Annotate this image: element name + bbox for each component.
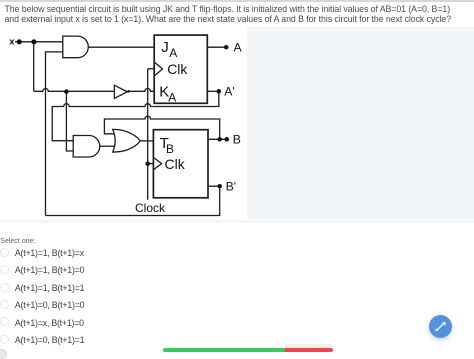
wire A' feedback down-left bbox=[52, 91, 219, 140]
question text bbox=[5, 4, 473, 25]
circuit schematic bbox=[0, 0, 247, 220]
wire K line with hops bbox=[34, 89, 115, 92]
and gate AND1 bbox=[63, 36, 89, 58]
wire clock vertical bbox=[147, 69, 149, 200]
light blue panel right of circuit image bbox=[247, 27, 474, 219]
wire x input horizontal bbox=[15, 41, 63, 43]
flip-flop JK box bbox=[154, 35, 207, 103]
progress bar red segment bbox=[285, 348, 333, 352]
node buffer output dot bbox=[127, 90, 130, 93]
wire B feedback up-left bbox=[104, 116, 219, 139]
wire OR output to T bbox=[140, 140, 153, 142]
node junction x-branch bbox=[64, 89, 69, 94]
wire clock stub to T clk bbox=[148, 163, 154, 165]
progress bar light halo bbox=[285, 344, 332, 348]
wire AND2 output to OR bbox=[100, 145, 115, 147]
wire AND1 lower input from B' bbox=[46, 52, 63, 216]
blue FAB button bbox=[429, 315, 452, 338]
top grey band bbox=[0, 0, 474, 2]
buffer U1 bbox=[114, 85, 127, 98]
node B junction bbox=[217, 137, 222, 142]
wire branch to AND2 lower input bbox=[66, 91, 73, 151]
clk triangle T bbox=[153, 157, 161, 170]
flip-flop T box bbox=[153, 130, 208, 198]
wire buffer output to K bbox=[128, 89, 154, 92]
bottom-left grey blob bbox=[0, 349, 7, 359]
node clock-T junction bbox=[145, 161, 150, 166]
node B terminal bbox=[225, 137, 230, 142]
wire A' output bbox=[207, 90, 219, 92]
wire x vertical branch bbox=[33, 42, 35, 92]
faint band under circuit image bbox=[0, 220, 474, 223]
or gate OR1 bbox=[113, 129, 141, 152]
wire B output bbox=[208, 138, 227, 140]
progress bar green segment bbox=[163, 348, 285, 352]
node x junction dot bbox=[31, 39, 36, 44]
wire B' feedback bottom bbox=[46, 186, 220, 215]
icon expand arrow bbox=[435, 321, 445, 330]
and gate AND2 bbox=[73, 136, 100, 158]
clk triangle JK bbox=[154, 62, 162, 76]
wire A output bbox=[207, 46, 226, 48]
select one bbox=[0, 238, 35, 245]
node x terminal dot bbox=[17, 39, 22, 44]
node B' terminal bbox=[217, 184, 222, 189]
wire AND1 output to J bbox=[88, 46, 154, 48]
node A terminal bbox=[224, 45, 229, 50]
wire B' output bbox=[208, 185, 219, 187]
wire clock stub to JK clk bbox=[148, 68, 155, 70]
node A' terminal bbox=[217, 89, 222, 94]
